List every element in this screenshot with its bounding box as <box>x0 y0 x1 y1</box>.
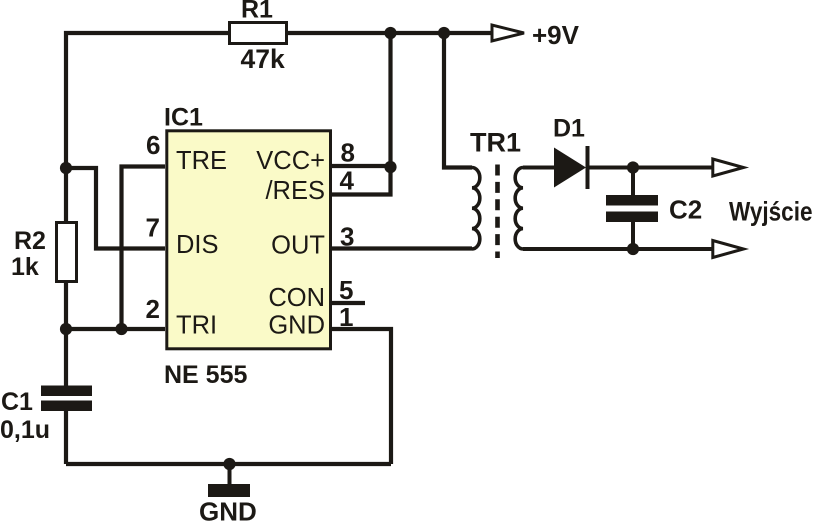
node R1-R2 junction <box>60 162 72 174</box>
wire secondary bottom rail <box>523 247 713 251</box>
svg-text:4: 4 <box>340 166 355 196</box>
output arrow bottom <box>713 241 744 258</box>
svg-text:NE 555: NE 555 <box>164 361 247 389</box>
resistor R2 <box>11 223 77 282</box>
node TRI / R2-C1 <box>60 323 72 335</box>
node TRI / TRE vertical <box>115 323 127 335</box>
capacitor C1 <box>0 386 92 445</box>
wire +9V branch down to primary <box>444 33 472 168</box>
wire /RES pin 4 <box>331 167 391 195</box>
svg-text:TRI: TRI <box>176 312 217 340</box>
output arrow top <box>713 159 744 176</box>
IC U1 NE555 body <box>164 104 331 390</box>
diode D1 <box>553 115 590 190</box>
wire CON pin 5 stub <box>331 301 365 305</box>
node ground rail / GND symbol <box>223 458 235 470</box>
wire diode to output arrow top <box>589 166 713 170</box>
svg-text:5: 5 <box>339 275 353 305</box>
supply arrow +9V <box>492 20 580 50</box>
wire TRI pin 2 <box>66 327 165 331</box>
svg-text:C2: C2 <box>669 195 702 225</box>
ground symbol GND <box>199 464 257 522</box>
svg-text:TRE: TRE <box>176 147 227 175</box>
svg-text:6: 6 <box>146 130 160 160</box>
svg-text:/RES: /RES <box>265 177 325 205</box>
wire top rail left <box>66 33 228 221</box>
node diode out / C2 top <box>627 161 639 173</box>
svg-text:2: 2 <box>146 294 160 324</box>
svg-text:47k: 47k <box>241 44 285 74</box>
capacitor C2 <box>606 168 702 250</box>
svg-text:R1: R1 <box>241 0 273 24</box>
wire secondary top to diode <box>523 166 554 170</box>
wire VCC pin 8 <box>331 164 391 168</box>
svg-text:IC1: IC1 <box>164 104 203 132</box>
svg-text:GND: GND <box>199 497 257 522</box>
transformer TR1 secondary coil <box>515 168 523 250</box>
svg-text:TR1: TR1 <box>470 128 521 158</box>
svg-text:7: 7 <box>146 213 160 243</box>
svg-text:+9V: +9V <box>532 20 580 50</box>
svg-text:OUT: OUT <box>271 231 325 259</box>
transformer TR1 primary coil <box>472 168 480 250</box>
svg-text:CON: CON <box>268 284 325 312</box>
svg-text:Wyjście: Wyjście <box>729 197 813 227</box>
node top rail / VCC vertical <box>384 27 396 39</box>
wire top rail right of R1 <box>288 31 492 35</box>
svg-text:8: 8 <box>341 138 355 168</box>
wire VCC vertical to top rail <box>388 33 392 167</box>
svg-text:GND: GND <box>268 312 325 340</box>
svg-text:C1: C1 <box>1 388 33 416</box>
wire DIS from R1/R2 junction <box>66 168 165 249</box>
transformer TR1 core dashed line <box>495 165 500 259</box>
svg-text:1k: 1k <box>11 253 39 281</box>
wire OUT pin 3 to transformer primary <box>331 246 472 250</box>
wire GND pin 1 down to rail <box>331 329 391 464</box>
wire R2 bottom to C1 <box>64 283 68 387</box>
node pin8 / pin4 <box>384 161 396 173</box>
svg-text:1: 1 <box>339 302 353 332</box>
wire C1 bottom to ground rail <box>64 410 68 464</box>
svg-text:D1: D1 <box>553 115 585 143</box>
svg-text:DIS: DIS <box>176 231 219 259</box>
node bottom rail / C2 bottom <box>627 243 639 255</box>
resistor R1 <box>230 0 287 74</box>
node top rail / transformer branch <box>438 27 450 39</box>
wire TRE to TRI vertical <box>122 167 166 330</box>
svg-text:0,1u: 0,1u <box>0 416 50 444</box>
svg-text:VCC+: VCC+ <box>256 147 325 175</box>
svg-text:R2: R2 <box>14 227 46 255</box>
wire bottom ground rail <box>66 462 391 466</box>
svg-text:3: 3 <box>340 222 354 252</box>
